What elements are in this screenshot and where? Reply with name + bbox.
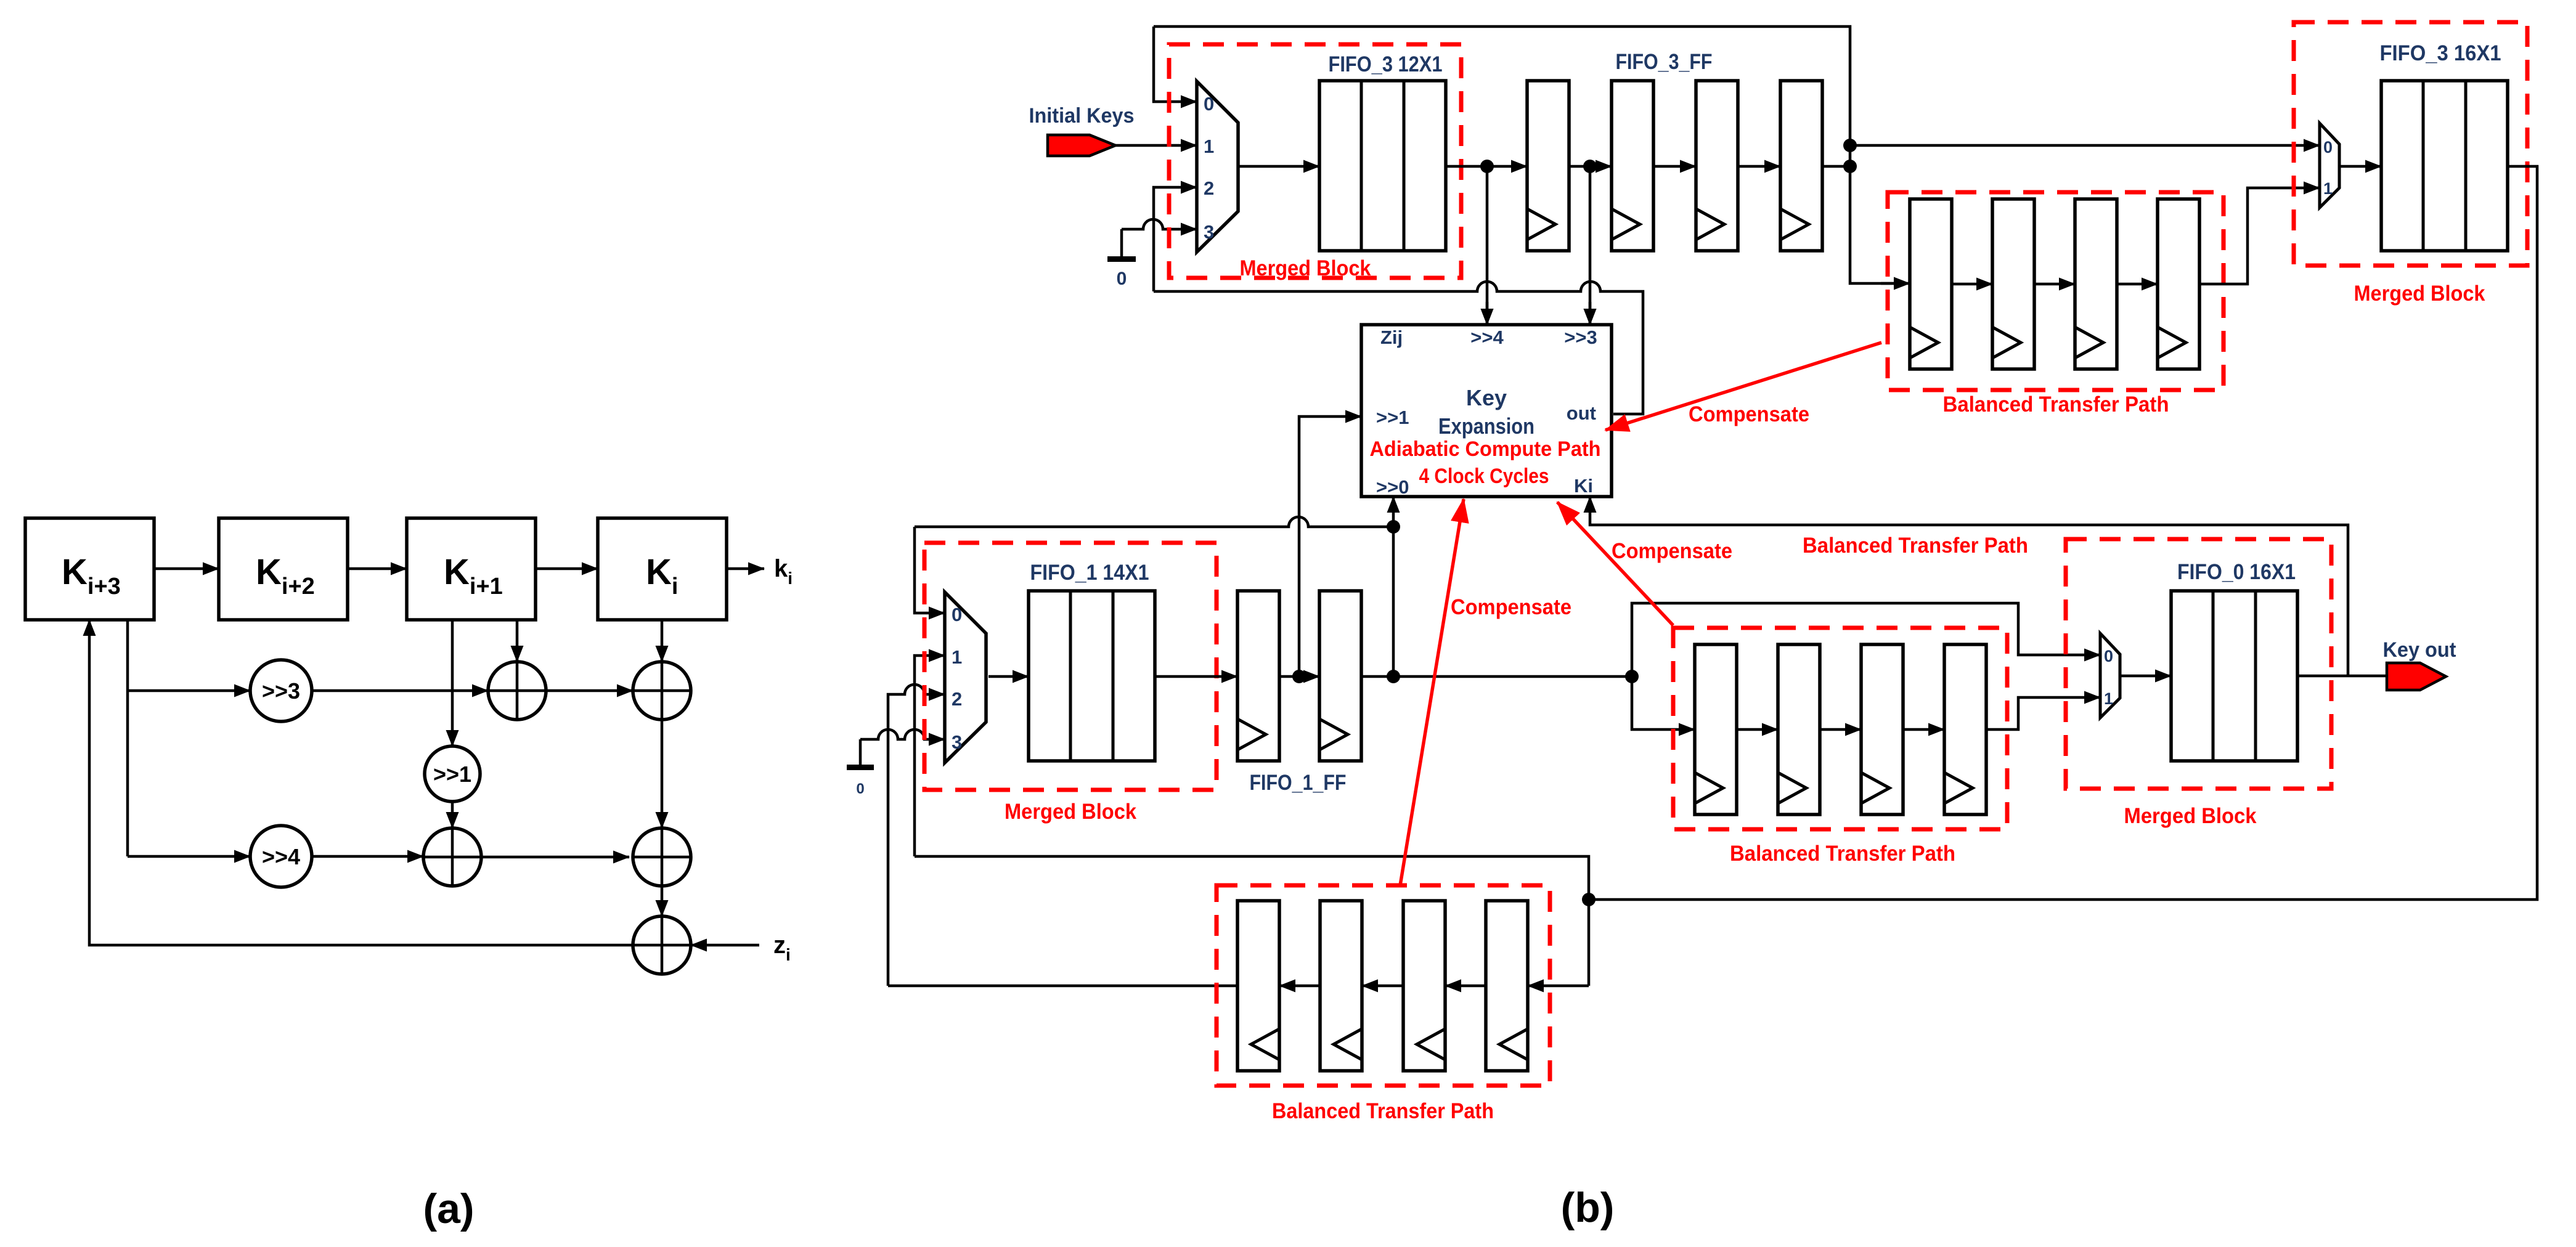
svg-text:0: 0: [856, 781, 864, 797]
wire T2 to T3: [2034, 283, 2075, 286]
xor D: [633, 828, 691, 886]
wire into reversed FF chain: [1528, 985, 1589, 988]
wire B2 to B1: [1279, 985, 1320, 988]
Key out pointer: [2387, 663, 2446, 690]
svg-text:3: 3: [952, 731, 962, 753]
svg-text:out: out: [1567, 402, 1596, 424]
register Ki: [598, 518, 727, 620]
mux U4: [945, 592, 986, 763]
flip-flop B4 reversed: [1486, 901, 1528, 1071]
svg-text:zi: zi: [773, 932, 791, 964]
wire down arrow to shift4 KE: [1486, 302, 1489, 325]
node junction dot bottom right: [1582, 893, 1596, 906]
wire Ki tap from key out line: [1590, 497, 2348, 676]
svg-text:Key out: Key out: [2383, 638, 2456, 662]
FIFO_1 14X1: [1029, 591, 1155, 761]
Initial Keys input pointer: [1048, 135, 1115, 156]
FIFO_3 16X1: [2381, 81, 2508, 251]
wire feedback to mux2 input: [1154, 187, 1197, 291]
wire xorD to xorE: [661, 886, 664, 916]
svg-text:FIFO_1 14X1: FIFO_1 14X1: [1030, 561, 1149, 585]
wire bus up over transfer path to mux0: [1632, 603, 2100, 676]
node junction dot: [1387, 670, 1400, 683]
ground top: [1120, 229, 1123, 258]
svg-text:>>4: >>4: [1470, 327, 1504, 348]
register Ki+1: [407, 518, 536, 620]
svg-text:0: 0: [2104, 647, 2113, 665]
xor A: [488, 662, 546, 720]
svg-text:4 Clock Cycles: 4 Clock Cycles: [1419, 465, 1549, 488]
wire Ki+1 to xorA top: [516, 620, 519, 662]
wire FIFO_0 to Key out: [2297, 675, 2387, 678]
svg-text:(b): (b): [1561, 1184, 1615, 1231]
svg-text:>>1: >>1: [433, 762, 471, 787]
wire mux U2 to FIFO_3 16X1: [2339, 165, 2381, 168]
svg-text:Compensate: Compensate: [1451, 595, 1571, 619]
svg-text:Key: Key: [1466, 385, 1507, 410]
svg-text:2: 2: [952, 688, 962, 710]
svg-text:Balanced Transfer Path: Balanced Transfer Path: [1803, 534, 2028, 558]
svg-text:Merged Block: Merged Block: [2354, 282, 2485, 306]
wire down to shift4 port: [1486, 166, 1489, 325]
wire Ki to ki output: [726, 567, 764, 571]
node junction dot: [1480, 160, 1494, 173]
flip-flop T3: [2075, 199, 2117, 369]
svg-text:Initial Keys: Initial Keys: [1029, 104, 1135, 128]
red dashed box balanced transfer path bottom: [1217, 885, 1550, 1086]
mux U5: [2100, 633, 2120, 718]
red compensate arrow to Ki port: [1557, 502, 1673, 625]
svg-text:Balanced Transfer Path: Balanced Transfer Path: [1943, 392, 2169, 416]
wire FF3 to FF4: [1738, 165, 1780, 168]
svg-text:>>4: >>4: [262, 844, 300, 869]
wire B1 output to left feedback: [888, 985, 1237, 988]
svg-text:1: 1: [952, 646, 962, 668]
wire FF2 to FF3: [1653, 165, 1696, 168]
svg-text:Merged Block: Merged Block: [1240, 256, 1371, 280]
red dashed box merged block lower left: [924, 543, 1217, 790]
wire xorA to xorB: [546, 689, 633, 693]
flip-flop F1: [1237, 591, 1279, 761]
wire M2 to M3: [1820, 728, 1861, 731]
wire zi input: [691, 944, 759, 947]
svg-text:Merged Block: Merged Block: [1005, 800, 1136, 824]
flip-flop T4: [2158, 199, 2199, 369]
wire Ki+1 to shifter1: [451, 620, 454, 746]
mux U1: [1197, 81, 1238, 252]
flip-flop F2: [1319, 591, 1361, 761]
wire mux U5 to FIFO_0: [2120, 675, 2171, 678]
wire F1 to F2: [1279, 675, 1319, 678]
flip-flop T2: [1992, 199, 2034, 369]
flip-flop M2: [1778, 644, 1820, 814]
wire T1 to T2: [1952, 283, 1992, 286]
wire mux U1 to FIFO_3 12X1: [1238, 165, 1319, 168]
flip-flop FF4: [1780, 81, 1822, 251]
wire down arrow to shift3 KE: [1589, 302, 1592, 325]
svg-text:1: 1: [2323, 179, 2333, 198]
register Ki+3: [25, 518, 154, 620]
mux U2: [2320, 123, 2339, 208]
svg-text:Balanced Transfer Path: Balanced Transfer Path: [1730, 842, 1955, 866]
wire FIFO_1 top feedback with hop: [915, 517, 1393, 527]
svg-text:0: 0: [2323, 138, 2333, 156]
register Ki+2: [219, 518, 348, 620]
wire Ki+2 to Ki+1: [348, 567, 407, 571]
wire M1 to M2: [1737, 728, 1778, 731]
FIFO_3 12X1: [1319, 81, 1446, 251]
wire M4 to lower right mux1: [1986, 697, 2100, 729]
svg-text:>>3: >>3: [262, 678, 300, 704]
red dashed box balanced transfer path top: [1888, 192, 2223, 390]
svg-text:1: 1: [2104, 689, 2113, 708]
flip-flop FF3: [1696, 81, 1738, 251]
svg-text:FIFO_3_FF: FIFO_3_FF: [1616, 50, 1713, 74]
wire FIFO_1 to FF1: [1155, 675, 1237, 678]
wire Ki to xorB top: [661, 620, 664, 662]
svg-text:Compensate: Compensate: [1689, 402, 1809, 426]
red dashed box merged block lower right: [2066, 539, 2331, 789]
xor B: [633, 662, 691, 720]
svg-text:0: 0: [1117, 269, 1127, 289]
wire Initial Keys to mux1: [1115, 144, 1197, 147]
FIFO_0 16X1: [2171, 591, 2297, 761]
shifter 1: [425, 746, 480, 802]
wire reversed chain to lower mux2 with hop: [888, 684, 945, 986]
wire xorC to xorD: [481, 856, 629, 859]
ground bottom: [859, 739, 862, 766]
flip-flop M4: [1944, 644, 1986, 814]
wire feedback to mux0 input: [1154, 26, 1197, 102]
svg-text:Balanced Transfer Path: Balanced Transfer Path: [1272, 1099, 1494, 1123]
wire shifter1 to xorC: [451, 802, 454, 828]
wire feedback to lower mux0: [915, 527, 945, 613]
node junction dot upper: [1843, 139, 1857, 152]
flip-flop FF1: [1527, 81, 1569, 251]
wire B4 to B3: [1445, 985, 1486, 988]
red dashed box balanced transfer path mid: [1673, 628, 2007, 829]
wire shifter3 to xorA: [312, 689, 488, 693]
svg-text:>>3: >>3: [1564, 327, 1597, 348]
wire to shifter 4: [128, 855, 250, 858]
wire Ki+3 bottom tap: [126, 620, 129, 856]
svg-text:FIFO_3 16X1: FIFO_3 16X1: [2380, 41, 2501, 65]
wire main bus to right: [1361, 675, 1632, 678]
svg-text:Expansion: Expansion: [1438, 413, 1535, 439]
wire down to shift3 port: [1589, 166, 1592, 325]
wire M3 to M4: [1903, 728, 1944, 731]
wire FF1 to FF2: [1569, 165, 1612, 168]
wire FF4 to junction: [1822, 165, 1850, 168]
node junction dot: [1292, 670, 1306, 683]
wire mux U4 to FIFO_1: [988, 675, 1029, 678]
xor E: [633, 916, 691, 974]
wire T3 to T4: [2117, 283, 2158, 286]
red compensate arrow to out port: [1605, 343, 1881, 430]
wire bus down into transfer path: [1632, 676, 1695, 729]
svg-text:Merged Block: Merged Block: [2124, 804, 2257, 828]
wire top feedback loop: [1154, 26, 1906, 283]
svg-text:Ki: Ki: [1574, 475, 1593, 497]
svg-text:0: 0: [1204, 93, 1214, 115]
wire ground to mux3 with hop: [1122, 219, 1197, 229]
red dashed box merged block top right: [2294, 22, 2527, 266]
xor C: [423, 828, 481, 886]
wire T4 to right mux1: [2199, 188, 2320, 284]
wire FIFO_3 to FF1: [1446, 165, 1527, 168]
svg-text:FIFO_1_FF: FIFO_1_FF: [1250, 771, 1347, 795]
svg-text:ki: ki: [774, 555, 793, 588]
wire bottom feedback to lower mux1: [915, 656, 945, 856]
node junction dot on feedback line: [1387, 520, 1400, 534]
svg-text:FIFO_0 16X1: FIFO_0 16X1: [2177, 560, 2296, 584]
wire to shifter 3: [128, 689, 250, 693]
svg-text:Compensate: Compensate: [1612, 539, 1732, 563]
wire up to shift1 port: [1299, 416, 1361, 676]
wire xorB to xorD: [661, 720, 664, 828]
wire junction to right mux0: [1850, 144, 2320, 147]
svg-text:2: 2: [1204, 177, 1214, 199]
shifter 3: [250, 660, 312, 721]
shifter 4: [250, 826, 312, 887]
wire up to shift0 port: [1392, 497, 1395, 676]
node junction dot lower: [1843, 160, 1857, 173]
node junction dot: [1583, 160, 1597, 173]
svg-text:1: 1: [1204, 136, 1214, 157]
wire B3 to B2: [1362, 985, 1403, 988]
flip-flop FF2: [1612, 81, 1653, 251]
flip-flop B2 reversed: [1320, 901, 1362, 1071]
flip-flop M3: [1861, 644, 1903, 814]
svg-text:0: 0: [952, 604, 962, 625]
node junction dot mid bus: [1625, 670, 1639, 683]
red dashed box merged block top left: [1169, 44, 1461, 278]
svg-text:FIFO_3 12X1: FIFO_3 12X1: [1329, 52, 1443, 76]
wire Ki+1 to Ki: [536, 567, 598, 571]
Key Expansion block U3: [1361, 325, 1612, 497]
wire shifter4 to xorC: [312, 855, 423, 858]
wire ground to lower mux3 with hops: [860, 729, 945, 739]
wire Ki+3 to Ki+2: [154, 567, 219, 571]
svg-text:Adiabatic Compute Path: Adiabatic Compute Path: [1370, 437, 1601, 461]
svg-text:Zij: Zij: [1380, 327, 1403, 348]
wire out feedback bottom edge with hops: [1154, 282, 1643, 414]
wire FIFO_3 16X1 output down right side to bottom: [1589, 166, 2537, 900]
flip-flop M1: [1695, 644, 1737, 814]
flip-flop B1 reversed: [1237, 901, 1279, 1071]
svg-text:(a): (a): [423, 1185, 474, 1232]
wire FIFO_1 bottom edge: [915, 856, 1589, 986]
flip-flop B3 reversed: [1403, 901, 1445, 1071]
red compensate arrow to shift0 port: [1400, 499, 1464, 885]
svg-text:3: 3: [1204, 221, 1214, 243]
wire feedback xorE to Ki+3: [89, 620, 633, 945]
svg-text:>>1: >>1: [1376, 407, 1409, 428]
wire into transfer path FF: [1881, 282, 1910, 285]
svg-text:>>0: >>0: [1376, 476, 1409, 498]
flip-flop T1: [1910, 199, 1952, 369]
